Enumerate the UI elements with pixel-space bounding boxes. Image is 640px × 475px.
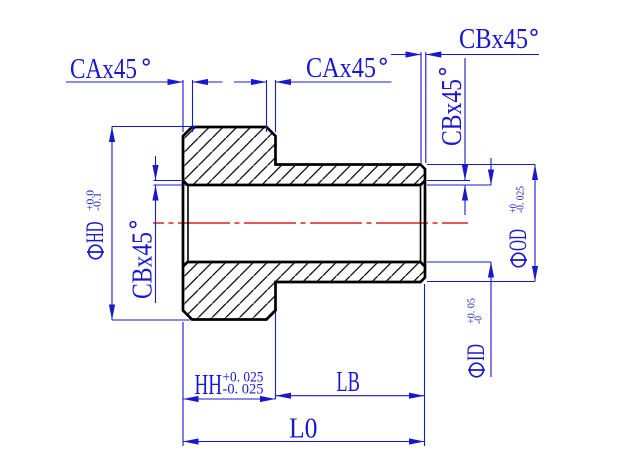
svg-text:CBx45: CBx45 [437, 79, 468, 146]
dim phiHD: dimension line [111, 127, 113, 321]
svg-text:CBx45: CBx45 [459, 24, 528, 55]
svg-text:CAx45: CAx45 [70, 54, 137, 85]
arrow CB top at 425.5 pointing left [426, 51, 442, 57]
dim CA right: extension lines [266, 80, 268, 132]
dim phiOD: dimension line [534, 165, 536, 282]
svg-text:-0: -0 [474, 316, 485, 324]
svg-text:CBx45: CBx45 [128, 232, 159, 299]
svg-text:-0. 025: -0. 025 [223, 382, 264, 398]
arrow phiHD top pointing up [109, 127, 115, 143]
label phiID with tolerance rotated [463, 298, 490, 377]
centerline [153, 222, 468, 224]
dim CA left: extension lines [182, 80, 184, 132]
label phiOD with tolerance rotated [505, 186, 532, 267]
arrow LB at 424.5 pointing right [409, 393, 425, 399]
arrow HH at 275.5 pointing right [260, 396, 276, 402]
dim LB: dimension line [276, 395, 425, 397]
arrow L0 at 183 pointing left [183, 438, 199, 444]
dim phiID: extension lines [427, 184, 491, 186]
arrow CA right at 266.5 pointing right [251, 79, 267, 85]
arrow CA left at 192.5 pointing left [193, 79, 209, 85]
dim CB left vertical: dimension line [155, 156, 157, 181]
svg-text:LB: LB [336, 367, 360, 398]
label CBx45 right rotated [437, 79, 468, 146]
svg-text:-0. 025: -0. 025 [516, 186, 527, 213]
arrow LB at 275.5 pointing left [276, 393, 292, 399]
dim CA left: dimension line [66, 81, 183, 83]
arrow CB top at 420.5 pointing right [406, 51, 422, 57]
dim CB top: extension lines [420, 52, 422, 163]
arrow phiID bottom pointing up [488, 262, 494, 278]
arrow CB right vertical pointing down [462, 165, 468, 181]
dim CB top: dimension line [391, 54, 421, 56]
arrow CA right at 275.5 pointing left [276, 79, 292, 85]
arrow phiOD top pointing up [532, 165, 538, 181]
svg-text:L0: L0 [289, 414, 318, 445]
dim CB left vertical: extension lines [154, 180, 182, 182]
dim phiHD: extension lines [112, 126, 196, 128]
left face edge through bore [182, 181, 185, 267]
arrow CA left at 183 pointing right [168, 79, 184, 85]
arrow phiHD bottom pointing down [109, 305, 115, 321]
dim L0: dimension line [183, 441, 425, 443]
bottom extension lines [182, 322, 184, 446]
arrow CB left vertical pointing up [152, 185, 158, 201]
bore chamfer edge circle left [187, 187, 189, 262]
dim phiID: dimension line [490, 158, 492, 185]
arrow phiOD bottom pointing down [532, 266, 538, 282]
bore chamfer edge circle right [420, 187, 422, 262]
label phiHD with tolerance rotated [82, 190, 109, 259]
dim CA right: dimension line [276, 81, 392, 83]
svg-text:HH: HH [195, 370, 223, 401]
dim CB right vertical: extension line [427, 180, 470, 182]
svg-text:OD: OD [505, 229, 532, 251]
dim HH: dimension line [183, 398, 276, 400]
svg-text:-0.1: -0.1 [93, 192, 104, 211]
dim CB right vertical: dimension line [464, 58, 466, 181]
label CBx45 left rotated [128, 232, 159, 299]
arrow L0 at 424.5 pointing right [409, 438, 425, 444]
dim phiOD: extension lines [427, 164, 535, 166]
arrow CB left vertical pointing down [152, 165, 158, 181]
section lower half (flange + body wall) [183, 262, 425, 320]
section upper half (flange + body wall) [183, 127, 425, 185]
svg-text:ID: ID [463, 344, 490, 361]
arrow CB right vertical pointing up [462, 185, 468, 201]
svg-text:HD: HD [82, 222, 109, 244]
svg-text:CAx45: CAx45 [306, 53, 376, 84]
arrow HH at 183 pointing left [183, 396, 199, 402]
right end face edge through bore [424, 181, 427, 267]
arrow phiID top pointing down [488, 170, 494, 186]
